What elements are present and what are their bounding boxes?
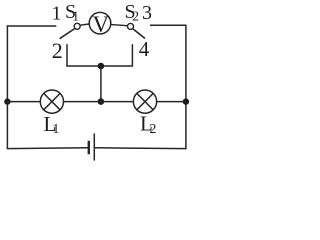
node junction left wire [4,98,10,104]
node junction middle wire center [98,98,105,105]
wire voltmeter to S2 pivot [111,25,127,26]
wire bracket down to middle wire [100,66,102,102]
wire left to lamp L1 [7,101,39,103]
wire battery to bottom right [95,147,187,150]
wire lamp L2 to right side [157,101,186,103]
svg-text:2: 2 [52,38,63,63]
svg-text:4: 4 [139,37,150,61]
switch S2 pivot circle [128,23,134,29]
svg-text:S2: S2 [125,1,140,25]
svg-text:3: 3 [142,2,152,24]
wire lamp L1 to center node [64,101,101,103]
lamp L1 circle [40,90,63,113]
svg-text:L1: L1 [44,112,60,137]
wire left side vertical [6,26,8,149]
wire contact 3 to top right corner [150,24,187,26]
contact 2 vertical wire [66,44,68,66]
svg-text:S1: S1 [65,1,79,25]
lamp L2 circle [133,90,156,113]
node junction right wire [183,98,189,104]
contact 4 vertical wire [131,44,133,66]
wire bracket horizontal joining 2 and 4 [66,65,133,67]
wire center node to lamp L2 [101,101,133,103]
wire right side vertical [185,25,187,148]
switch S1 arm [60,29,75,39]
wire bottom left to battery [7,147,88,150]
voltmeter V circle [89,12,111,34]
lamp L1 cross [44,93,60,109]
svg-text:V: V [92,12,109,37]
lamp L2 cross [137,93,153,109]
battery negative plate short thick [88,141,90,155]
svg-text:1: 1 [52,3,62,25]
switch S1 pivot circle [74,23,80,29]
node junction on bracket [98,63,105,70]
battery positive plate long thin [93,134,95,161]
wire top left horizontal to contact 1 [7,25,57,27]
wire S1 pivot to voltmeter [80,24,89,25]
svg-text:L2: L2 [140,111,156,137]
switch S2 arm [133,29,145,39]
